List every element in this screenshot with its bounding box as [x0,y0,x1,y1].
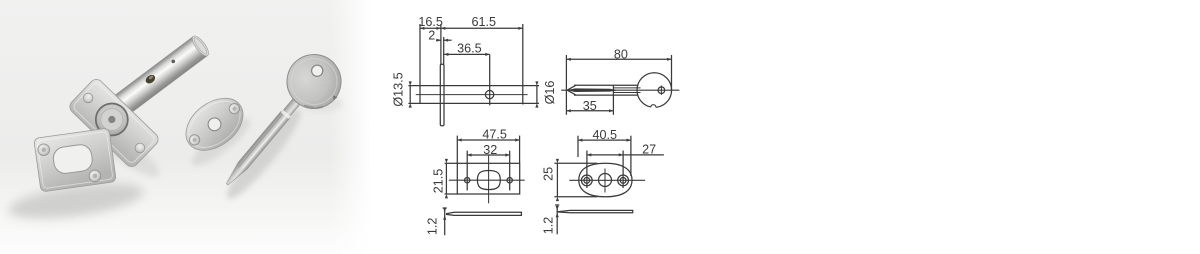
dim line 27 [587,154,664,156]
svg-text:1.2: 1.2 [425,218,439,236]
arrows dim 16.5 [420,27,424,30]
extension line at faceplate front [440,24,442,64]
extension line oval top [554,162,597,164]
photo: bolt faceplate [67,77,161,170]
grub hole [485,90,493,98]
bow bottom notch [651,106,656,109]
escutcheon key hole [206,115,224,133]
middle hole [599,174,612,187]
horizontal center line [449,179,525,181]
photo background [0,0,372,254]
edge view plate [557,210,633,212]
dia 13.5 dim line [409,86,411,103]
photo: mortice bolt tube [100,34,211,126]
escutcheon screw 2 [227,101,242,116]
svg-text:32: 32 [483,143,497,157]
arrows dim 25 [556,159,559,163]
dim line 1.2 [444,208,446,236]
svg-text:16.5: 16.5 [418,15,443,29]
extension line oval left [577,136,579,157]
dim line 2 [436,39,441,41]
key blade top [574,84,639,86]
middle hole tick [604,169,606,193]
faceplate (side) [440,64,444,126]
body bottom line [408,102,539,104]
arrows dim 35 [566,109,570,112]
bolt hole [477,171,500,190]
photo: escutcheon [176,88,253,161]
extension line plate bottom [445,193,458,195]
extension line screw right [509,151,511,191]
svg-text:61.5: 61.5 [472,15,497,29]
dim line 32 [467,154,510,156]
DRAWING 2: key side view [561,55,679,115]
extension line left (bolt tip) [419,24,421,104]
arrows dia13.5 [409,81,412,85]
extension line plate left [456,136,458,164]
arrows dim 1.2 [443,208,446,212]
svg-text:Ø16: Ø16 [543,81,557,105]
arrows dim 47.5 [457,138,461,141]
screw hole right inner [620,178,626,184]
dim line 47.5 [457,139,519,141]
dim line 36.5 [444,53,490,55]
svg-text:36.5: 36.5 [457,41,482,55]
small hole on tube [171,59,176,64]
svg-text:80: 80 [614,48,628,62]
arrows dim 27 [587,153,591,156]
svg-text:2: 2 [428,28,435,42]
extension line plate top [445,162,458,164]
faceplate screw 2 [133,141,147,155]
dim line 35 [566,110,613,112]
svg-text:35: 35 [583,99,597,113]
strike plate outline [457,163,519,194]
arrows dim 32 [467,153,471,156]
dim line 40.5 [578,139,631,141]
DRAWING 4: escutcheon face + edge view [554,136,664,235]
extension line at faceplate back [443,37,445,64]
screw hole right [507,178,512,183]
svg-text:1.2: 1.2 [542,217,556,235]
key center line [561,89,679,91]
screw hole right outer [618,175,629,186]
key bow circle [637,73,672,108]
svg-text:Ø13.5: Ø13.5 [392,72,406,106]
key blade middle groove (thick) [567,88,618,92]
screw hole left outer [581,175,592,186]
arrows dim 21.5 [445,159,448,163]
key tip bevel top [567,85,576,90]
extension line to hole [489,54,491,105]
key bow hub circle [658,87,665,94]
extension line screw right [622,151,624,189]
photo: key head [276,44,351,119]
shank inner line top [613,87,640,89]
shadow under strike plate [7,177,146,226]
svg-text:40.5: 40.5 [592,128,617,142]
dim line 16.5 / 61.5 [420,27,523,29]
escutcheon screw 1 [187,133,202,148]
shadow under key head [301,96,343,112]
DRAWING 3: strike plate face + edge view [443,136,525,236]
extension line plate right [519,136,521,164]
extension line key tip [565,55,567,115]
vertical center line [488,155,490,204]
bolt face boss [89,97,134,142]
grub screw hole on tube [144,73,157,85]
svg-text:25: 25 [541,167,555,181]
arrows dim 61.5 [441,27,445,30]
blade end line [612,85,614,115]
arrows dim 36.5 [444,53,448,56]
DRAWING 1: mortice bolt side view [408,24,539,126]
arrows dim 80 [566,58,570,61]
extension line at body end [522,24,524,105]
arrows dim 2 [437,39,441,42]
center line [416,94,528,96]
dim line 21.5 [445,163,447,194]
arrows dia16 [535,81,538,85]
shank inner line bottom [613,92,640,94]
extension line oval bottom [554,196,597,198]
edge view plate [447,212,522,215]
dim line 25 [556,163,558,196]
extension line screw left [586,151,588,189]
arrows dim 1.2 [556,206,559,210]
faceplate screw 1 [81,91,95,105]
key head hole [309,63,325,79]
screw hole left [465,178,470,183]
key tip bevel bottom [567,90,576,95]
extension line oval right [630,136,632,176]
key blade bottom [574,94,639,96]
svg-text:47.5: 47.5 [482,128,507,142]
svg-text:27: 27 [642,143,656,157]
shadow under escutcheon [186,112,255,172]
photo: strike plate [34,128,117,192]
body top line [408,85,539,87]
dim line 80 [566,58,671,60]
arrows dim 40.5 [578,139,582,142]
strike plate bolt hole [52,143,94,175]
escutcheon oval outline [579,163,632,197]
extension line key end [671,55,673,90]
shadow under bolt faceplate [87,120,165,184]
shadow under key shaft [220,103,309,205]
screw hole left inner [584,178,590,184]
strike plate screw 1 [37,143,50,156]
horizontal center line [569,179,645,181]
dim line 1.2 [556,205,558,235]
hub vertical tick [660,86,662,95]
svg-text:21.5: 21.5 [431,169,445,194]
strike plate screw 2 [88,169,101,182]
photo: key shaft [223,98,301,188]
extension line screw left [466,151,468,191]
dia 16 dim line [536,86,538,103]
